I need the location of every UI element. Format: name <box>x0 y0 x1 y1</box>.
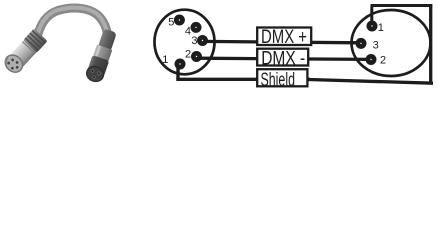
svg-text:Shield: Shield <box>261 70 296 91</box>
svg-text:DMX -: DMX - <box>261 49 305 70</box>
svg-text:1: 1 <box>162 54 168 66</box>
svg-text:3: 3 <box>191 35 197 47</box>
svg-text:5: 5 <box>168 17 174 29</box>
svg-text:3: 3 <box>373 39 379 51</box>
svg-text:2: 2 <box>185 48 191 60</box>
svg-text:4: 4 <box>185 25 191 37</box>
svg-text:DMX +: DMX + <box>261 27 307 48</box>
svg-text:1: 1 <box>378 22 384 34</box>
svg-text:2: 2 <box>380 55 386 67</box>
